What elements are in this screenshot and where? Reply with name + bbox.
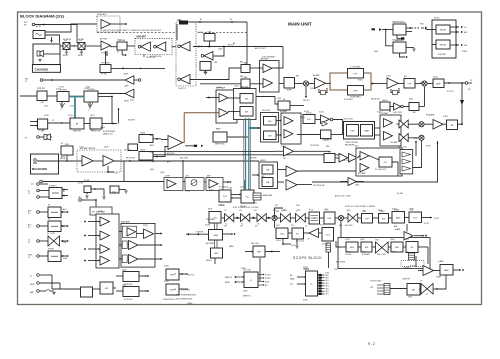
svg-text:CRT SOCKET: CRT SOCKET — [370, 281, 382, 283]
svg-text:AMP: AMP — [444, 269, 449, 272]
svg-text:T901: T901 — [375, 240, 379, 242]
svg-text:RESET IC: RESET IC — [243, 296, 252, 298]
svg-text:CN860: CN860 — [187, 303, 192, 305]
svg-text:Q202: Q202 — [104, 147, 108, 149]
svg-text:IC601 DC-DC: IC601 DC-DC — [392, 22, 404, 24]
svg-text:IC602 AVR: IC602 AVR — [392, 39, 401, 42]
svg-text:SW: SW — [40, 102, 43, 104]
svg-text:SP OUT: SP OUT — [447, 91, 455, 93]
svg-text:B LINE: B LINE — [84, 180, 90, 182]
svg-text:COMP: COMP — [165, 176, 170, 178]
svg-text:PLL UNLOCK: PLL UNLOCK — [375, 169, 387, 171]
svg-text:SW IC404: SW IC404 — [240, 87, 248, 89]
svg-text:H.V ADJ: H.V ADJ — [410, 265, 417, 268]
svg-text:AFC AMP: AFC AMP — [206, 242, 215, 245]
svg-text:DET OUT: DET OUT — [343, 160, 352, 162]
svg-text:PLL LOCK: PLL LOCK — [296, 241, 305, 243]
svg-text:B-LINE: B-LINE — [78, 183, 83, 185]
svg-text:DEMOD: DEMOD — [260, 160, 267, 162]
svg-text:REM: REM — [28, 255, 32, 257]
svg-text:T903 FBT: T903 FBT — [402, 279, 411, 281]
svg-text:SEG: SEG — [326, 275, 329, 277]
svg-text:CF: CF — [311, 210, 313, 212]
svg-text:FIL: FIL — [48, 219, 51, 221]
svg-text:AGC DET: AGC DET — [345, 224, 353, 227]
svg-text:IC405: IC405 — [217, 87, 222, 89]
svg-text:DIM: DIM — [63, 242, 67, 244]
svg-text:S-METER: S-METER — [196, 232, 204, 234]
svg-text:CP: CP — [305, 226, 307, 228]
svg-text:PWR AMP: PWR AMP — [426, 114, 435, 117]
svg-text:B+: B+ — [63, 191, 65, 193]
svg-text:ANT: ANT — [28, 210, 31, 213]
svg-text:IC704: IC704 — [68, 115, 73, 117]
svg-text:Q903: Q903 — [360, 239, 364, 241]
svg-text:B2: B2 — [230, 19, 232, 21]
svg-text:D701: D701 — [112, 192, 116, 194]
svg-text:CN601: CN601 — [462, 51, 467, 53]
svg-text:B MUTE: B MUTE — [128, 120, 136, 122]
svg-text:BAL/FADER: BAL/FADER — [345, 144, 355, 147]
svg-text:IC304: IC304 — [433, 77, 438, 79]
svg-text:RY601: RY601 — [434, 18, 439, 20]
svg-text:Q312 Q313: Q312 Q313 — [393, 112, 402, 114]
svg-text:IC324: IC324 — [234, 86, 239, 88]
svg-text:LEVEL ADJ: LEVEL ADJ — [97, 13, 106, 16]
svg-text:SW: SW — [365, 247, 368, 249]
svg-text:AF G: AF G — [167, 161, 172, 164]
svg-text:AF BUS: AF BUS — [250, 157, 257, 160]
svg-text:SEG: SEG — [326, 278, 329, 280]
svg-text:AMP: AMP — [396, 216, 401, 219]
svg-text:AF R: AF R — [150, 144, 155, 147]
svg-text:9 - 2: 9 - 2 — [368, 342, 375, 346]
svg-text:BUFF: BUFF — [124, 74, 128, 76]
svg-text:B-UP CURRENT MODE: B-UP CURRENT MODE — [176, 299, 192, 301]
svg-text:Q851: Q851 — [186, 191, 190, 193]
svg-text:E-VOL: E-VOL — [304, 111, 309, 113]
svg-text:OSC: OSC — [280, 233, 285, 235]
svg-text:1/4: 1/4 — [239, 210, 242, 212]
svg-text:IC860: IC860 — [241, 268, 246, 270]
svg-text:MIC LINE: MIC LINE — [180, 158, 189, 160]
svg-text:DEM: DEM — [213, 235, 218, 237]
svg-text:SEG: SEG — [326, 294, 329, 296]
svg-text:1/2: 1/2 — [224, 210, 227, 212]
svg-text:B LINE: B LINE — [397, 193, 403, 195]
svg-text:GND: GND — [150, 169, 155, 171]
svg-text:RESET: RESET — [225, 282, 230, 284]
svg-text:HIGH PASS: HIGH PASS — [350, 95, 361, 98]
svg-text:AFC: AFC — [215, 252, 220, 255]
svg-text:POWER SUPPLY: POWER SUPPLY — [163, 299, 177, 301]
svg-text:MAIN UNIT: MAIN UNIT — [288, 22, 312, 27]
svg-text:MUTE SW: MUTE SW — [371, 99, 380, 101]
svg-text:LPF AMP: LPF AMP — [390, 141, 398, 144]
svg-text:B.U.: B.U. — [414, 138, 418, 140]
svg-text:DATA: DATA — [100, 126, 105, 129]
svg-text:Q705: Q705 — [90, 115, 94, 117]
svg-text:SW: SW — [268, 135, 271, 137]
svg-text:V.OUT: V.OUT — [424, 223, 430, 225]
svg-text:AUDIO H.V. CONN: AUDIO H.V. CONN — [335, 195, 351, 198]
svg-text:SEG: SEG — [326, 291, 329, 293]
svg-text:IC810: IC810 — [164, 266, 169, 268]
svg-text:SW: SW — [245, 98, 248, 100]
svg-text:MAIN AMP: MAIN AMP — [121, 220, 131, 223]
svg-text:MUTE: MUTE — [30, 284, 35, 286]
svg-text:SCREEN: SCREEN — [362, 254, 370, 256]
svg-text:V AMP: V AMP — [394, 209, 400, 212]
svg-text:RAM: RAM — [364, 129, 369, 132]
svg-text:Q921: Q921 — [283, 210, 287, 212]
svg-text:S-DET: S-DET — [205, 225, 211, 227]
svg-text:MICOM: MICOM — [240, 206, 246, 208]
svg-text:F.CUT ADJ: F.CUT ADJ — [344, 98, 353, 101]
svg-text:IC301 LINE AMP: IC301 LINE AMP — [262, 56, 276, 59]
svg-text:Q922: Q922 — [296, 210, 300, 212]
svg-text:SEG: SEG — [326, 280, 329, 282]
svg-text:MUTE: MUTE — [265, 281, 269, 283]
svg-text:IC352: IC352 — [377, 112, 382, 114]
svg-text:AF L: AF L — [150, 134, 154, 137]
svg-text:CN202: CN202 — [140, 150, 145, 152]
svg-text:V AMP: V AMP — [436, 276, 442, 279]
svg-text:MIC MUTE: MIC MUTE — [126, 158, 136, 160]
svg-text:LOUDNESS: LOUDNESS — [322, 139, 333, 141]
svg-text:Q203: Q203 — [160, 172, 164, 174]
svg-text:IC801: IC801 — [98, 211, 103, 213]
svg-text:IC201: IC201 — [79, 147, 84, 149]
svg-text:LIM: LIM — [214, 62, 217, 64]
svg-text:Q302: Q302 — [310, 88, 314, 90]
svg-text:VCO X851: VCO X851 — [219, 187, 228, 189]
svg-text:VCO 8M: VCO 8M — [322, 244, 329, 246]
svg-text:EQ AMP: EQ AMP — [280, 110, 288, 113]
svg-text:Q502 Q503: Q502 Q503 — [137, 36, 146, 38]
svg-text:IC402 1/2: IC402 1/2 — [178, 88, 186, 90]
svg-text:OUT: OUT — [410, 210, 414, 212]
svg-text:REM: REM — [63, 258, 67, 260]
svg-text:Q706: Q706 — [90, 130, 94, 132]
svg-text:BEEP OSC: BEEP OSC — [215, 143, 225, 145]
svg-text:SEG: SEG — [326, 283, 329, 285]
svg-text:KEY SW: KEY SW — [38, 130, 45, 132]
svg-text:Q407: Q407 — [218, 49, 222, 51]
svg-text:SEG: SEG — [326, 286, 329, 288]
svg-text:F ADJ: F ADJ — [358, 79, 363, 82]
svg-text:IC851: IC851 — [240, 187, 245, 189]
svg-text:VCO: VCO — [320, 225, 324, 227]
svg-text:FOCUS: FOCUS — [345, 254, 352, 256]
svg-text:LPF: LPF — [363, 211, 366, 213]
svg-text:SW: SW — [382, 218, 385, 220]
svg-text:IC322: IC322 — [319, 112, 324, 114]
svg-text:P CONT SW: P CONT SW — [124, 299, 133, 301]
svg-text:B-UP 5V: B-UP 5V — [188, 275, 195, 277]
svg-text:BAL: BAL — [240, 61, 243, 64]
svg-text:MIC SW: MIC SW — [124, 150, 131, 152]
svg-text:TEL MUTE: TEL MUTE — [310, 145, 320, 147]
svg-text:SW: SW — [245, 111, 248, 113]
svg-text:SEG: SEG — [326, 288, 329, 290]
svg-text:B1: B1 — [200, 19, 202, 21]
svg-text:AF PWR: AF PWR — [100, 38, 108, 41]
svg-text:X801: X801 — [208, 209, 212, 211]
svg-text:1/2: 1/2 — [225, 224, 227, 226]
svg-text:SW IC323: SW IC323 — [262, 110, 270, 112]
svg-text:AMP SW: AMP SW — [73, 129, 81, 132]
svg-text:VCO: VCO — [223, 196, 228, 198]
svg-text:D601: D601 — [374, 51, 378, 53]
svg-text:REG: REG — [65, 144, 70, 146]
svg-text:NOISE: NOISE — [48, 249, 54, 251]
svg-text:Q703: Q703 — [44, 115, 48, 117]
svg-text:IC703: IC703 — [59, 87, 64, 89]
svg-text:PLL: PLL — [291, 225, 294, 227]
svg-text:IC353: IC353 — [443, 116, 448, 118]
svg-text:SW: SW — [412, 112, 415, 114]
svg-text:SERVO: SERVO — [206, 260, 212, 262]
svg-text:Q408: Q408 — [124, 86, 128, 88]
svg-text:IC852: IC852 — [209, 190, 214, 192]
svg-text:PWR SW: PWR SW — [37, 88, 45, 90]
svg-text:PTT: PTT — [31, 184, 34, 186]
svg-text:NOTE: H.V. CONN. DETAIL / X D: NOTE: H.V. CONN. DETAIL / X DEMOD — [345, 205, 376, 208]
svg-text:IC403: IC403 — [198, 32, 203, 34]
svg-text:CN201: CN201 — [140, 133, 145, 135]
svg-text:SP MUTE: SP MUTE — [63, 39, 72, 41]
svg-text:IC860: IC860 — [243, 291, 247, 293]
svg-text:IC303: IC303 — [386, 76, 391, 78]
svg-text:DSP: DSP — [350, 130, 355, 132]
svg-text:REF OSC: REF OSC — [251, 243, 260, 245]
svg-text:CHASSIS: CHASSIS — [35, 68, 49, 72]
svg-text:AF OUT DET: AF OUT DET — [255, 47, 267, 50]
svg-text:SW: SW — [268, 121, 271, 123]
svg-text:ILL: ILL — [28, 240, 30, 242]
svg-text:B CONT: B CONT — [265, 278, 271, 280]
svg-text:E-VOL: E-VOL — [300, 117, 305, 119]
svg-text:X852: X852 — [253, 203, 257, 205]
svg-text:AC IN: AC IN — [36, 25, 41, 28]
svg-text:NOISE FIL: NOISE FIL — [49, 186, 57, 188]
svg-text:FAD: FAD — [244, 76, 248, 79]
svg-text:P CONT: P CONT — [265, 274, 271, 276]
svg-text:TEL: TEL — [283, 158, 286, 160]
svg-text:COM: COM — [325, 273, 330, 275]
svg-text:8MHz: 8MHz — [229, 246, 234, 248]
svg-text:MUTE: MUTE — [382, 100, 388, 102]
svg-text:VCO: VCO — [326, 234, 331, 236]
svg-text:OSC 8MHz: OSC 8MHz — [206, 219, 215, 221]
svg-text:Q701: Q701 — [44, 106, 48, 108]
svg-text:FIL: FIL — [48, 205, 50, 207]
svg-text:SW: SW — [362, 252, 365, 254]
svg-text:BUFF: BUFF — [287, 89, 293, 91]
svg-text:SW 5V REG: SW 5V REG — [181, 290, 191, 292]
svg-text:IC811: IC811 — [164, 281, 169, 283]
svg-text:IC701: IC701 — [56, 89, 61, 91]
svg-text:IC901: IC901 — [276, 240, 281, 242]
svg-text:SEG DRIVE: SEG DRIVE — [336, 262, 346, 264]
svg-text:IC321: IC321 — [281, 146, 286, 148]
svg-text:TEL MUTE SW: TEL MUTE SW — [313, 185, 325, 187]
svg-text:F601: F601 — [420, 24, 424, 26]
svg-text:SW: SW — [105, 288, 108, 290]
svg-text:V-OUT: V-OUT — [434, 218, 439, 220]
svg-text:Q803: Q803 — [122, 270, 126, 272]
svg-text:ST: ST — [30, 276, 32, 278]
svg-text:ACC AMP: ACC AMP — [358, 172, 366, 175]
svg-text:AF MUTE SW: AF MUTE SW — [150, 55, 162, 58]
svg-text:BEEP: BEEP — [216, 129, 222, 131]
svg-text:CRT: CRT — [370, 287, 373, 289]
svg-text:ILL CONT: ILL CONT — [47, 233, 56, 235]
svg-text:AMP: AMP — [436, 82, 441, 85]
svg-text:SP SW: SP SW — [101, 74, 107, 76]
svg-text:REG: REG — [350, 247, 355, 249]
svg-text:IC861: IC861 — [304, 269, 309, 271]
svg-text:IC902: IC902 — [345, 239, 350, 241]
svg-text:1/8: 1/8 — [254, 210, 257, 212]
svg-text:LOW PASS: LOW PASS — [351, 66, 361, 69]
svg-text:Q704: Q704 — [86, 87, 90, 89]
svg-text:1/4: 1/4 — [241, 224, 243, 226]
svg-text:V-AMP: V-AMP — [438, 260, 444, 263]
svg-text:T903: T903 — [408, 297, 412, 299]
svg-text:DSP IC351: DSP IC351 — [344, 119, 353, 121]
svg-text:Q331 Q332: Q331 Q332 — [398, 147, 407, 149]
svg-text:IC501: IC501 — [117, 40, 122, 42]
svg-text:SP-: SP- — [468, 89, 471, 91]
svg-text:SUB OUT: SUB OUT — [303, 100, 310, 102]
svg-text:BAL: BAL — [244, 62, 248, 65]
svg-text:IC802: IC802 — [143, 225, 148, 227]
svg-text:Q804: Q804 — [122, 285, 126, 287]
svg-text:Q321: Q321 — [277, 98, 281, 100]
svg-text:Q333: Q333 — [355, 185, 359, 187]
svg-text:SCOPE BLOCK: SCOPE BLOCK — [293, 256, 322, 260]
svg-text:SP SW: SP SW — [78, 39, 84, 41]
svg-text:Q904: Q904 — [390, 239, 394, 241]
svg-text:T902: T902 — [405, 239, 409, 241]
svg-text:Q311: Q311 — [409, 99, 413, 101]
svg-text:SW: SW — [92, 212, 95, 214]
svg-text:1/8: 1/8 — [257, 224, 259, 226]
svg-text:RELAY: RELAY — [440, 44, 447, 47]
svg-text:SUB UNIT: SUB UNIT — [438, 54, 447, 56]
svg-text:Q702: Q702 — [70, 106, 74, 108]
svg-text:RELAY: RELAY — [440, 29, 447, 32]
svg-text:ILL: ILL — [63, 226, 66, 228]
svg-text:MIC BOARD: MIC BOARD — [32, 167, 47, 171]
svg-text:AF AMP: AF AMP — [313, 74, 320, 77]
svg-text:BLOCK DIAGRAM (2/3): BLOCK DIAGRAM (2/3) — [20, 13, 64, 18]
svg-text:IC851: IC851 — [219, 205, 224, 207]
svg-text:DEF YOKE: DEF YOKE — [377, 254, 386, 256]
svg-text:B+: B+ — [28, 191, 30, 193]
